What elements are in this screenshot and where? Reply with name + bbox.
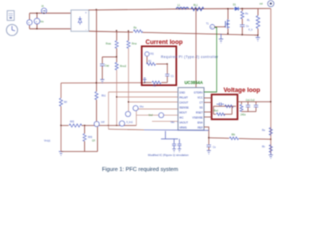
svg-text:CT: CT bbox=[199, 101, 203, 105]
IC left pin stub y109 with meter bbox=[136, 108, 178, 110]
op-amp IC U1 UC3854A bbox=[178, 88, 204, 131]
wire feedback bbox=[209, 138, 271, 140]
divider resistor Rmo x128.5 bbox=[128, 31, 130, 41]
resistor Rv2 bbox=[241, 102, 243, 105]
svg-text:VRMS: VRMS bbox=[179, 126, 187, 130]
wire right network y101.8 bbox=[238, 101, 271, 103]
capacitor Cs2 bbox=[207, 145, 211, 147]
IC left pin meter y122 bbox=[178, 120, 183, 125]
svg-text:Vm(p): Vm(p) bbox=[44, 141, 50, 143]
ground x208.8 bbox=[207, 151, 211, 155]
svg-text:+: + bbox=[211, 25, 213, 29]
wire drop x165.4 bbox=[164, 131, 166, 139]
ground divider bottom bbox=[269, 152, 273, 158]
svg-text:Figure 1: PFC required system: Figure 1: PFC required system bbox=[102, 167, 179, 173]
svg-text:out: out bbox=[260, 3, 264, 6]
IC left pin stub y121.3 bbox=[152, 120, 178, 122]
wire gate drive net (green) bbox=[204, 28, 217, 93]
source circle (122,125.5) bbox=[119, 121, 133, 126]
svg-text:Rff2: Rff2 bbox=[70, 122, 75, 124]
junction dot x96.5 y83 bbox=[96, 82, 97, 83]
svg-text:SS: SS bbox=[199, 106, 203, 110]
svg-text:240o: 240o bbox=[241, 114, 247, 116]
analysis TRAN box bbox=[7, 11, 14, 21]
svg-text:V(t): V(t) bbox=[150, 53, 154, 56]
voltage loop interior wire bbox=[214, 105, 237, 107]
resistor inline bottom rail bbox=[133, 28, 143, 34]
resistor RL1 (top rail) bbox=[191, 7, 204, 10]
ground (bottom rail right) bbox=[256, 35, 260, 41]
wire under IC y131 bbox=[109, 128, 145, 131]
svg-text:GND: GND bbox=[179, 91, 185, 95]
svg-text:VSENSE: VSENSE bbox=[192, 116, 203, 120]
resistor R1 loop bbox=[147, 63, 156, 66]
mosfet Q1 bbox=[224, 20, 229, 29]
divider resistor Rvac x116.7 bbox=[116, 31, 118, 41]
wire x84.6 branch bbox=[84, 126, 86, 134]
svg-text:RSET: RSET bbox=[196, 111, 203, 115]
svg-text:Modified IC (Figure-1) simul: Modified IC (Figure-1) simulation bbox=[148, 153, 189, 157]
resistor R61 bbox=[59, 98, 62, 106]
svg-text:PKLMT: PKLMT bbox=[179, 96, 188, 100]
svg-text:REF: REF bbox=[198, 126, 204, 130]
ground (bottom rail near mosfet) bbox=[219, 34, 223, 43]
resistor Rvd loop bbox=[213, 106, 215, 114]
svg-text:Rb1: Rb1 bbox=[102, 96, 107, 98]
wire x108.5 vertical bbox=[108, 92, 110, 129]
mosfet Q1 drain wire bbox=[227, 9, 229, 20]
Voltage loop box bbox=[212, 95, 238, 120]
capacitor Cct bbox=[173, 139, 175, 144]
resistor Rmo2 bbox=[115, 62, 118, 70]
svg-text:X_Im1: X_Im1 bbox=[126, 122, 133, 124]
wire x61 vertical bbox=[60, 83, 62, 98]
wire bottom join bbox=[242, 111, 257, 113]
svg-text:Rvac: Rvac bbox=[106, 44, 112, 46]
snubber resistor Rs bbox=[241, 9, 243, 12]
capacitor Cv1 bbox=[247, 102, 249, 105]
voltage source VS1 bbox=[34, 18, 44, 24]
snubber capacitor Cs bbox=[241, 19, 243, 25]
IC left pin stub y92 bbox=[109, 91, 179, 93]
svg-text:+: + bbox=[28, 21, 30, 25]
svg-text:Cap: Cap bbox=[105, 66, 110, 68]
resistor Rv loop bbox=[225, 105, 234, 108]
wire bottom source rail bbox=[30, 28, 72, 30]
wire right rail bbox=[270, 9, 272, 155]
svg-text:Vm: Vm bbox=[40, 22, 44, 24]
capacitor C1 loop bbox=[165, 74, 169, 76]
wire left source vertical bbox=[29, 13, 31, 29]
svg-text:Vref: Vref bbox=[149, 114, 153, 117]
svg-text:ISENSE: ISENSE bbox=[179, 106, 189, 110]
wire x136.3 vertical bbox=[135, 109, 137, 126]
capacitor Css bbox=[178, 139, 180, 144]
wire IAC feed vertical x196 bbox=[195, 9, 197, 88]
wire pin to feedback bbox=[204, 127, 209, 145]
resistor Rinline bbox=[69, 122, 82, 128]
wire y83 horizontal bbox=[61, 82, 145, 84]
svg-text:Rff: Rff bbox=[64, 102, 67, 104]
junction dots source bbox=[36, 13, 44, 30]
capacitor Cv2 bbox=[255, 102, 257, 105]
diode D1 bbox=[233, 5, 240, 11]
IC left pin stub y115.2 with source bbox=[136, 114, 178, 116]
bridge rectifier bbox=[71, 10, 89, 31]
divider resistor Ra bbox=[269, 127, 272, 135]
svg-text:Cv1 Cv2: Cv1 Cv2 bbox=[246, 100, 256, 102]
svg-text:Vrff: Vrff bbox=[101, 121, 105, 124]
ammeter circle (96.7,125.5) bbox=[94, 121, 105, 127]
wire bottom rail bbox=[89, 31, 258, 35]
svg-text:-: - bbox=[85, 27, 86, 31]
source circle (128,114) bbox=[125, 111, 130, 116]
svg-text:Rmo: Rmo bbox=[132, 44, 138, 46]
svg-text:GTDRV: GTDRV bbox=[194, 91, 203, 95]
wire gate link bbox=[215, 26, 226, 28]
divider resistor Rb bbox=[269, 145, 272, 153]
IC left pin stub y102 bbox=[129, 101, 179, 103]
ground loop bbox=[143, 78, 146, 83]
resistor Rb1 bbox=[95, 92, 98, 100]
wire top rail bbox=[89, 9, 271, 11]
svg-text:CAOUT: CAOUT bbox=[179, 101, 188, 105]
svg-text:K_b: K_b bbox=[249, 30, 254, 32]
svg-text:IAC: IAC bbox=[179, 116, 183, 120]
wire to cap bbox=[156, 63, 167, 65]
ground x102 bbox=[100, 80, 104, 84]
svg-text:Current loop: Current loop bbox=[146, 39, 183, 46]
wire vertical x96.5 bbox=[96, 10, 98, 92]
capacitor Cv loop bbox=[217, 103, 225, 107]
svg-text:Rvd: Rvd bbox=[214, 110, 219, 112]
wire y56.9 sub bbox=[102, 56, 116, 58]
source V(t) bbox=[145, 52, 149, 56]
resistor Rffb bbox=[83, 134, 86, 142]
svg-text:Required PI (Type-2) controlle: Required PI (Type-2) controller bbox=[161, 55, 219, 59]
svg-text:+: + bbox=[36, 19, 38, 23]
IC right stubs bbox=[204, 97, 212, 99]
wire bottom y151.5 bbox=[61, 151, 98, 153]
wire V(t) down bbox=[146, 56, 148, 64]
ground x61 bbox=[59, 152, 63, 156]
voltmeter out (top right) bbox=[260, 1, 274, 7]
wire second source vertical bbox=[36, 13, 38, 29]
svg-text:VCC: VCC bbox=[197, 96, 203, 100]
svg-text:Voltage loop: Voltage loop bbox=[224, 87, 261, 94]
IC left pin stub y97 bbox=[117, 96, 178, 98]
mosfet Q1 source wire bbox=[227, 29, 229, 34]
inductor L1 bbox=[176, 7, 189, 9]
junction dot divider bbox=[270, 139, 271, 140]
svg-text:RL1: RL1 bbox=[194, 5, 199, 7]
wire y138.9 bbox=[161, 138, 178, 140]
voltage source VG1 bbox=[27, 20, 32, 25]
wire y125.5 horizontal bbox=[61, 125, 136, 127]
load resistor RL bbox=[257, 9, 259, 16]
capacitor Cap1 bbox=[101, 57, 103, 64]
wire x97.5 branch bbox=[97, 127, 99, 152]
wire top source rail bbox=[30, 12, 72, 14]
junction dots rails bbox=[96, 8, 259, 36]
resistor R2 loop bbox=[152, 81, 162, 84]
svg-text:Vbo: Vbo bbox=[140, 107, 145, 109]
junction dots y125.5 bbox=[60, 125, 117, 126]
clock widget bbox=[6, 24, 17, 35]
resistor Rfb inline bbox=[229, 135, 239, 141]
Current loop box bbox=[142, 46, 177, 85]
svg-text:Rmo2: Rmo2 bbox=[120, 66, 127, 68]
svg-text:UC3854A: UC3854A bbox=[185, 80, 203, 85]
svg-text:Cff: Cff bbox=[92, 141, 95, 143]
wire loop bottom bbox=[145, 82, 168, 84]
gate driver circle bbox=[206, 24, 215, 30]
svg-text:Rff3: Rff3 bbox=[88, 137, 93, 139]
svg-text:VAOUT: VAOUT bbox=[179, 121, 188, 125]
svg-text:ENA: ENA bbox=[197, 121, 203, 125]
ammeter IA bbox=[41, 5, 46, 14]
svg-text:MOUT: MOUT bbox=[179, 111, 187, 115]
svg-text:+: + bbox=[85, 11, 87, 15]
